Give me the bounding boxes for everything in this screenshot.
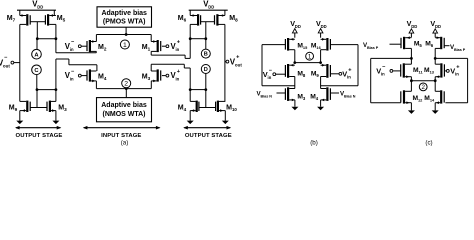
terminal Vin+ (b) <box>339 72 342 75</box>
wire Vin- to M11 gate (c) <box>393 70 401 72</box>
wire lower-right source to bottom rail <box>150 81 152 89</box>
cross wire left vertical (b) <box>261 45 263 86</box>
svg-text:in: in <box>70 47 74 52</box>
svg-text:DD: DD <box>321 24 327 29</box>
svg-text:D: D <box>204 67 208 73</box>
transistor M3 <box>49 101 51 112</box>
wire M7-M5 gate connection <box>30 21 45 23</box>
terminal Vin+ (c) <box>446 70 449 73</box>
wire node D to gate rail <box>205 90 207 108</box>
junction NMOS WTA tap <box>125 87 128 90</box>
svg-text:(b): (b) <box>310 140 318 147</box>
ground M12 (c) <box>410 103 412 111</box>
VDD arrow (b right) <box>318 29 323 33</box>
wire M6 gate to VBiasP (c) <box>444 45 449 47</box>
wire M6 drain vertical (diode connection) <box>189 24 191 58</box>
wire M4 gate to VBiasN (b) <box>330 92 339 94</box>
terminal Vin- (top) <box>78 45 81 48</box>
wire M15 gate to left cross wire <box>262 44 285 46</box>
wire M16 drain to node 1 rail <box>320 50 322 63</box>
adaptive bias box (PMOS WTA) <box>97 7 152 27</box>
transistor M15 <box>287 38 289 51</box>
junction node1 left <box>293 61 296 64</box>
transistor M5 (c) <box>403 37 405 49</box>
wire bottom rail to NMOS WTA box <box>125 89 127 98</box>
svg-text:DD: DD <box>208 5 214 10</box>
transistor M4' (input lower left) <box>89 69 91 81</box>
wire M9 gate to Vin+ (b) <box>330 73 339 75</box>
wire input lower-left drain up to C-net <box>96 65 98 71</box>
VDD rail (left output stage) <box>17 9 56 11</box>
wire M9-M3 gate connection <box>30 107 47 109</box>
svg-text:Adaptive bias: Adaptive bias <box>101 10 147 17</box>
wire M7 source from VDD rail <box>19 10 21 15</box>
svg-text:DD: DD <box>411 24 417 29</box>
ground at M4 source <box>189 111 191 121</box>
transistor M2 (input) <box>89 40 91 52</box>
wire M6-M8 gate connection <box>201 21 215 23</box>
wire C-net to input stage (M4 drain) <box>69 64 97 66</box>
VDD rail (right output stage) <box>189 9 228 11</box>
svg-text:(c): (c) <box>425 140 432 147</box>
svg-text:Adaptive bias: Adaptive bias <box>101 102 147 109</box>
ground M14 (c) <box>434 103 436 111</box>
output rail Vout- vertical <box>19 24 21 101</box>
node 1 circle (b) <box>306 52 314 60</box>
terminal Vin- (bottom) <box>78 74 81 77</box>
wire D-net jog vertical <box>183 64 185 68</box>
junction node B / M6 drain <box>189 37 192 40</box>
svg-text:Bias P: Bias P <box>454 48 466 52</box>
ground at M3 source <box>55 111 57 121</box>
transistor M8 (b) <box>287 64 289 78</box>
cross wire right bottom (b) <box>321 85 358 87</box>
terminal Vout+ <box>226 60 229 63</box>
junction cross left (c) <box>410 57 413 60</box>
svg-text:1: 1 <box>308 53 312 60</box>
wire M15 drain to node 1 rail <box>294 50 296 63</box>
junction node D <box>204 88 207 91</box>
terminal Vin- (b) <box>273 73 276 76</box>
svg-text:2: 2 <box>124 81 128 88</box>
wire lower-left source to bottom rail <box>95 81 97 89</box>
cross wire right top (c) <box>435 57 467 59</box>
transistor M3' (input lower right) <box>157 69 159 81</box>
node 1 rail (b) <box>295 62 321 64</box>
output stage marker (right) <box>184 127 230 129</box>
transistor M10 <box>217 101 219 112</box>
junction node2 left (c) <box>410 79 413 82</box>
svg-text:in: in <box>455 72 459 77</box>
transistor M9 (b) <box>326 64 328 78</box>
svg-text:in: in <box>381 72 385 77</box>
wire D-net horizontal segment <box>151 63 184 65</box>
wire B-net jog vertical <box>184 55 186 58</box>
wire M8 source from VDD rail <box>224 10 226 15</box>
transistor M12 (c) <box>403 90 405 103</box>
svg-text:1: 1 <box>123 42 127 49</box>
transistor M14 (c) <box>440 90 442 103</box>
svg-text:(a): (a) <box>121 140 129 147</box>
adaptive bias box (NMOS WTA) <box>97 98 152 122</box>
node B <box>201 49 210 58</box>
node A <box>32 49 42 59</box>
wire M6 source from VDD rail <box>189 10 191 15</box>
ground M3 (b) <box>294 100 296 107</box>
wire M1 source drop <box>150 35 152 42</box>
terminal Vin+ (bottom) <box>166 74 169 77</box>
junction node C <box>36 88 39 91</box>
wire M3 drain vertical <box>55 59 57 101</box>
wire M1 drain down to node B wire <box>150 51 152 55</box>
wire M2 drain down to node A wire <box>95 51 97 52</box>
wire node A horizontal <box>37 38 56 40</box>
input stage marker <box>84 127 160 129</box>
svg-text:in: in <box>70 76 74 81</box>
wire M11 source to node 2 rail (c) <box>410 77 412 92</box>
wire M5 drain vertical (diode connection) <box>55 24 57 52</box>
svg-text:Bias N: Bias N <box>260 95 272 99</box>
svg-text:B: B <box>204 52 208 58</box>
wire input lower-right drain up to D-net <box>150 64 152 71</box>
node D <box>201 65 210 74</box>
transistor M5 <box>47 14 49 25</box>
terminal Vin- (c) <box>390 70 393 73</box>
wire M9 drain to M4 drain (b) <box>320 77 322 89</box>
svg-text:DD: DD <box>295 24 301 29</box>
output rail Vout+ vertical <box>224 24 226 101</box>
wire A to input stage (M2 drain) <box>56 52 96 54</box>
node 2 rail (c) <box>411 80 435 82</box>
wire M16 gate to right cross wire <box>330 44 358 46</box>
wire node C to gate rail <box>36 90 38 108</box>
transistor M6 <box>197 14 199 25</box>
svg-text:in: in <box>268 75 272 80</box>
ground M4 (b) <box>320 100 322 107</box>
svg-text:out: out <box>3 63 10 68</box>
wire PMOS WTA output to input stage <box>125 27 127 34</box>
ground at M10 source <box>224 111 226 121</box>
wire M4-M10 gate connection <box>199 107 216 109</box>
transistor M4 <box>196 101 198 112</box>
wire M13 gate to Vin+ (c) <box>444 70 446 72</box>
svg-text:out: out <box>235 63 242 68</box>
svg-text:2: 2 <box>421 84 425 91</box>
wire M4 drain vertical <box>189 68 191 101</box>
junction node B tap <box>204 37 207 40</box>
cross wire right vertical (b) <box>357 45 359 86</box>
transistor M8 <box>216 14 218 25</box>
svg-text:INPUT STAGE: INPUT STAGE <box>101 133 141 139</box>
svg-text:(PMOS WTA): (PMOS WTA) <box>103 18 146 25</box>
cross wire left bottom (b) <box>262 85 295 87</box>
wire node A stub <box>36 39 38 50</box>
input stage top rail <box>96 34 151 36</box>
svg-text:OUTPUT STAGE: OUTPUT STAGE <box>16 133 63 139</box>
junction node1 right <box>319 61 322 64</box>
wire M2 source drop <box>95 35 97 42</box>
wire C-net to input stage upper segment <box>56 58 69 60</box>
junction node A / M5 drain <box>55 37 58 40</box>
svg-text:Bias N: Bias N <box>344 95 356 99</box>
svg-text:in: in <box>175 76 179 81</box>
svg-text:in: in <box>347 75 351 80</box>
node 2 circle <box>122 79 131 88</box>
junction node C / M3 drain <box>55 88 58 91</box>
wire gate tap down to node B <box>205 22 207 39</box>
wire Vin- to gate (bottom) <box>82 75 88 77</box>
svg-text:OUTPUT STAGE: OUTPUT STAGE <box>185 133 232 139</box>
transistor M16 <box>326 38 328 51</box>
svg-text:Bias P: Bias P <box>367 46 379 50</box>
wire B to input stage (M1 drain) <box>151 54 185 56</box>
wire VBiasN to M3 gate (b) <box>277 92 286 94</box>
svg-text:in: in <box>175 47 179 52</box>
transistor M3 (b) <box>287 87 289 101</box>
VDD arrow (c right) <box>433 29 438 33</box>
wire M6 drain down (c) <box>434 48 436 64</box>
transistor M4 (b) <box>326 87 328 101</box>
junction node2 right (c) <box>434 79 437 82</box>
cross wire left vertical (c) <box>370 58 372 102</box>
transistor M13 (c) <box>440 63 442 77</box>
wire node B horizontal <box>190 38 206 40</box>
wire C-net jog <box>68 59 70 65</box>
cross wire right vertical (c) <box>467 58 469 102</box>
wire gate tap down to node A <box>36 22 38 39</box>
wire node D horizontal <box>190 89 206 91</box>
wire node C horizontal <box>37 89 56 91</box>
wire gate to Vin+ (bottom) <box>162 75 166 77</box>
wire Vin- to M8 gate (b) <box>276 73 286 75</box>
cross wire left top (c) <box>371 57 412 59</box>
wire D-net jog horizontal <box>184 67 190 69</box>
transistor M11 (c) <box>403 63 405 77</box>
cross wire left bottom to M12 gate (c) <box>371 102 401 104</box>
wire Vout- terminal <box>14 62 20 64</box>
VDD arrow (b left) <box>292 29 297 33</box>
wire node D stub <box>205 74 207 90</box>
wire M1 gate to Vin+ <box>162 45 166 47</box>
svg-text:DD: DD <box>37 5 43 10</box>
junction node A tap <box>36 37 39 40</box>
svg-text:(NMOS WTA): (NMOS WTA) <box>102 111 145 118</box>
junction node D / M4 drain <box>189 88 192 91</box>
wire M5 drain down (c) <box>410 48 412 64</box>
transistor M6 (c) <box>440 37 442 49</box>
VDD arrow (c left) <box>409 29 414 33</box>
wire node C stub <box>36 75 38 90</box>
terminal Vin+ (top) <box>166 45 169 48</box>
junction cross right (c) <box>434 57 437 60</box>
wire M13 source to node 2 rail (c) <box>434 77 436 92</box>
transistor M9 <box>26 101 28 112</box>
cross wire right bottom to M14 gate (c) <box>445 102 467 104</box>
transistor M7 <box>26 14 28 25</box>
wire Vout+ terminal <box>225 61 226 63</box>
svg-text:DD: DD <box>435 24 441 29</box>
wire M5 source from VDD rail <box>53 10 55 15</box>
node 1 circle <box>120 40 129 49</box>
wire M8 drain to M3 drain (b) <box>294 77 296 89</box>
wire B-net jog horizontal <box>185 57 190 59</box>
wire node B stub <box>205 39 207 49</box>
input stage bottom rail <box>96 88 151 90</box>
ground at M9 source <box>19 111 21 121</box>
transistor M1 (input) <box>157 40 159 52</box>
node C <box>32 65 42 75</box>
output stage marker (left) <box>16 127 60 129</box>
wire Vin- to M2 gate <box>82 45 88 47</box>
terminal Vout- <box>11 61 14 64</box>
node 2 circle (c) <box>419 83 427 91</box>
wire VBiasP to M5 gate (c) <box>390 43 402 45</box>
junction WTA tap <box>125 33 128 36</box>
